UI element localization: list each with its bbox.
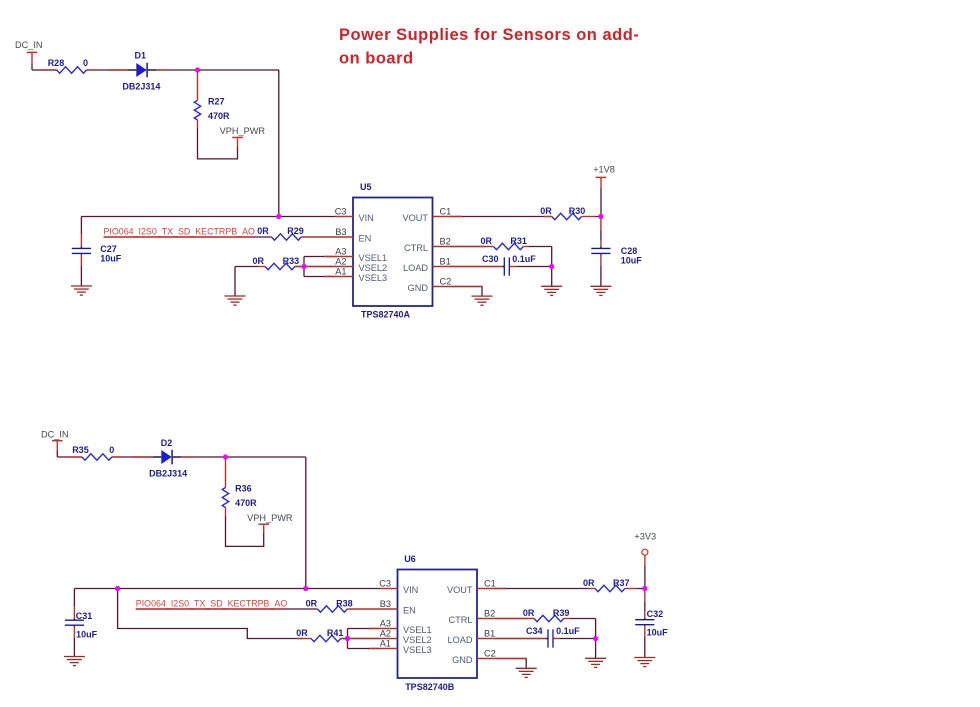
svg-text:DC_IN: DC_IN [15,40,43,50]
svg-text:0R: 0R [481,236,493,246]
svg-text:C31: C31 [76,611,93,621]
svg-text:0R: 0R [306,598,318,608]
svg-text:VOUT: VOUT [402,213,428,223]
svg-text:10uF: 10uF [76,629,98,639]
svg-text:U6: U6 [404,554,416,564]
svg-text:+3V3: +3V3 [634,532,656,542]
svg-text:CTRL: CTRL [404,243,428,253]
svg-text:0.1uF: 0.1uF [512,254,536,264]
svg-text:R39: R39 [553,608,570,618]
svg-text:R33: R33 [283,256,300,266]
svg-text:VSEL2: VSEL2 [359,263,388,273]
svg-text:10uF: 10uF [647,627,669,637]
svg-text:B3: B3 [380,599,391,609]
svg-text:B3: B3 [335,227,346,237]
svg-text:R37: R37 [613,578,630,588]
svg-text:Power Supplies for Sensors on: Power Supplies for Sensors on add- [339,26,639,44]
svg-text:C3: C3 [379,578,391,588]
svg-text:+1V8: +1V8 [593,164,615,174]
svg-text:R27: R27 [208,97,225,107]
svg-text:VIN: VIN [359,213,374,223]
svg-text:C32: C32 [647,609,664,619]
svg-text:B2: B2 [484,608,495,618]
svg-text:R30: R30 [569,206,586,216]
svg-text:LOAD: LOAD [447,635,472,645]
svg-text:EN: EN [359,234,372,244]
svg-text:VSEL2: VSEL2 [403,635,432,645]
svg-text:10uF: 10uF [100,254,122,264]
svg-text:VIN: VIN [403,585,418,595]
svg-text:A2: A2 [380,628,391,638]
svg-text:R35: R35 [72,445,89,455]
svg-text:A3: A3 [380,618,391,628]
svg-text:VPH_PWR: VPH_PWR [220,126,266,136]
svg-text:C1: C1 [484,578,496,588]
svg-text:DB2J314: DB2J314 [149,469,187,479]
svg-text:B1: B1 [484,628,495,638]
svg-text:TPS82740B: TPS82740B [405,682,455,692]
svg-text:C1: C1 [440,206,452,216]
svg-text:VSEL1: VSEL1 [403,625,432,635]
svg-text:GND: GND [408,283,429,293]
svg-text:VOUT: VOUT [447,585,473,595]
svg-text:U5: U5 [360,182,372,192]
svg-text:A2: A2 [335,256,346,266]
svg-text:PIO064_I2S0_TX_SD_KECTRPB_AO: PIO064_I2S0_TX_SD_KECTRPB_AO [104,227,256,237]
svg-text:VSEL3: VSEL3 [403,645,432,655]
svg-text:R28: R28 [48,58,65,68]
svg-text:D1: D1 [135,51,147,61]
svg-text:PIO064_I2S0_TX_SD_KECTRPB_AO: PIO064_I2S0_TX_SD_KECTRPB_AO [136,598,288,608]
svg-text:0R: 0R [523,608,535,618]
svg-text:A1: A1 [380,638,391,648]
svg-text:A1: A1 [335,266,346,276]
svg-text:C27: C27 [100,244,117,254]
svg-text:0.1uF: 0.1uF [556,626,580,636]
svg-text:DB2J314: DB2J314 [122,81,160,91]
svg-text:C3: C3 [335,206,347,216]
svg-text:CTRL: CTRL [449,615,473,625]
svg-text:470R: 470R [208,111,230,121]
svg-text:GND: GND [452,655,473,665]
svg-text:TPS82740A: TPS82740A [361,310,411,320]
svg-text:B2: B2 [440,236,451,246]
svg-text:A3: A3 [335,246,346,256]
svg-text:B1: B1 [440,256,451,266]
svg-text:R41: R41 [327,628,344,638]
svg-text:0: 0 [109,445,114,455]
svg-text:EN: EN [403,606,416,616]
svg-text:LOAD: LOAD [403,263,428,273]
svg-text:0R: 0R [296,628,308,638]
svg-text:0R: 0R [253,256,265,266]
svg-text:R38: R38 [336,598,353,608]
svg-text:0R: 0R [257,226,269,236]
svg-text:C34: C34 [526,626,543,636]
svg-text:C2: C2 [484,648,496,658]
svg-text:C2: C2 [440,276,452,286]
svg-text:470R: 470R [235,498,257,508]
svg-text:R36: R36 [235,484,252,494]
svg-text:C30: C30 [482,254,499,264]
svg-text:DC_IN: DC_IN [41,430,69,440]
svg-text:0R: 0R [583,578,595,588]
svg-text:VPH_PWR: VPH_PWR [247,513,293,523]
svg-text:0R: 0R [540,206,552,216]
svg-text:D2: D2 [161,438,173,448]
svg-text:R31: R31 [510,236,527,246]
svg-text:VSEL3: VSEL3 [359,273,388,283]
svg-text:VSEL1: VSEL1 [359,253,388,263]
svg-text:0: 0 [83,58,88,68]
svg-text:on board: on board [339,50,414,68]
svg-text:R29: R29 [287,226,304,236]
svg-text:10uF: 10uF [621,255,643,265]
